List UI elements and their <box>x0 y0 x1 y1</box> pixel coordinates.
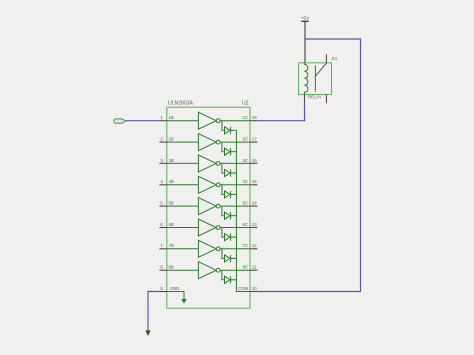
channel 7 output line <box>220 248 250 250</box>
channel 2 output line <box>220 141 250 143</box>
channel 7 input pin 7 <box>159 243 174 249</box>
relay switch blade <box>315 63 326 76</box>
svg-text:10: 10 <box>252 286 257 291</box>
channel 6 diode D6 <box>222 228 237 241</box>
channel 3 input line <box>167 162 199 164</box>
diode common bus to COM <box>236 130 250 291</box>
relay pin bottom-left (coil) <box>304 95 306 104</box>
+5V supply symbol <box>301 16 310 22</box>
IC U2 ULN2803A body <box>167 107 250 308</box>
wire GND net <box>148 292 159 332</box>
channel 5 input line <box>167 205 199 207</box>
channel 2 input pin 2 <box>159 137 174 143</box>
channel 6 inverter bubble <box>216 226 220 230</box>
GND internal arrow <box>167 292 187 304</box>
svg-text:3B: 3B <box>169 158 174 163</box>
channel 1 inverter bubble <box>216 119 220 123</box>
channel 6 inverter triangle <box>198 219 216 236</box>
svg-text:1C: 1C <box>243 115 248 120</box>
channel 3 inverter triangle <box>198 155 216 172</box>
channel 2 inverter bubble <box>216 140 220 144</box>
svg-text:13: 13 <box>252 222 257 227</box>
channel 5 output line <box>220 205 250 207</box>
channel 4 diode D4 <box>222 185 237 198</box>
channel 8 output line <box>220 269 250 271</box>
svg-text:17: 17 <box>252 137 257 142</box>
svg-text:4B: 4B <box>169 179 174 184</box>
channel 5 input pin 5 <box>159 201 174 207</box>
wire output 1C to relay coil <box>257 103 304 121</box>
wire COM net to +5V rail <box>257 39 360 292</box>
channel 4 output pin 15 <box>243 179 258 185</box>
svg-text:6C: 6C <box>243 222 248 227</box>
wire +5V to relay coil top <box>304 22 306 63</box>
svg-text:18: 18 <box>252 115 257 120</box>
svg-text:6B: 6B <box>169 222 174 227</box>
channel 2 input line <box>167 141 199 143</box>
channel 4 input line <box>167 184 199 186</box>
relay pin top-right <box>325 54 327 63</box>
channel 3 diode D3 <box>222 163 237 176</box>
channel 7 input line <box>167 248 199 250</box>
svg-text:15: 15 <box>252 179 257 184</box>
ground symbol arrow <box>145 330 150 336</box>
relay coil <box>304 63 308 95</box>
channel 4 inverter bubble <box>216 183 220 187</box>
relay pin bottom-right <box>325 95 327 104</box>
channel 2 diode D2 <box>222 142 237 155</box>
svg-text:+5V: +5V <box>301 16 310 21</box>
channel 1 inverter triangle <box>198 112 216 129</box>
svg-text:16: 16 <box>252 158 257 163</box>
svg-text:2C: 2C <box>243 137 248 142</box>
channel 7 diode D7 <box>222 249 237 262</box>
channel 5 inverter triangle <box>198 198 216 215</box>
svg-text:11: 11 <box>252 265 257 270</box>
svg-text:12: 12 <box>252 243 257 248</box>
wire input net to pin 1 <box>126 120 160 122</box>
channel 1 diode D1 <box>222 121 237 134</box>
svg-text:8B: 8B <box>169 265 174 270</box>
svg-text:RELAY: RELAY <box>308 95 322 100</box>
channel 4 inverter triangle <box>198 176 216 193</box>
channel 7 inverter bubble <box>216 247 220 251</box>
channel 1 output line <box>220 120 250 122</box>
svg-text:8C: 8C <box>243 265 248 270</box>
relay switch pole <box>314 65 316 92</box>
channel 2 inverter triangle <box>198 134 216 151</box>
channel 5 output pin 14 <box>243 201 258 207</box>
svg-text:U2: U2 <box>242 101 249 107</box>
channel 4 input pin 4 <box>159 179 174 185</box>
channel 8 diode D8 <box>222 270 237 283</box>
svg-text:ULN2803A: ULN2803A <box>168 101 194 107</box>
channel 8 inverter triangle <box>198 262 216 279</box>
svg-text:7B: 7B <box>169 243 174 248</box>
channel 8 inverter bubble <box>216 268 220 272</box>
COM pin 10 <box>238 286 257 292</box>
channel 7 output pin 12 <box>243 243 258 249</box>
channel 3 output line <box>220 162 250 164</box>
channel 8 output pin 11 <box>243 265 258 271</box>
svg-text:1B: 1B <box>169 115 174 120</box>
channel 4 output line <box>220 184 250 186</box>
channel 1 input line <box>167 120 199 122</box>
svg-text:5C: 5C <box>243 201 248 206</box>
channel 7 inverter triangle <box>198 240 216 257</box>
channel 1 output pin 18 <box>243 115 258 121</box>
channel 3 output pin 16 <box>243 158 258 164</box>
channel 6 output line <box>220 227 250 229</box>
channel 5 inverter bubble <box>216 204 220 208</box>
channel 2 output pin 17 <box>243 137 258 143</box>
svg-text:4C: 4C <box>243 179 248 184</box>
svg-text:2B: 2B <box>169 137 174 142</box>
svg-text:7C: 7C <box>243 243 248 248</box>
channel 3 inverter bubble <box>216 162 220 166</box>
channel 3 input pin 3 <box>159 158 174 164</box>
svg-text:3C: 3C <box>243 158 248 163</box>
channel 5 diode D5 <box>222 206 237 219</box>
input port connector <box>114 119 126 123</box>
channel 1 input pin 1 <box>159 115 174 121</box>
channel 6 input line <box>167 227 199 229</box>
channel 6 input pin 6 <box>159 222 174 228</box>
channel 8 input pin 8 <box>159 265 174 271</box>
svg-text:14: 14 <box>252 201 257 206</box>
GND pin 9 <box>159 286 179 292</box>
svg-text:5B: 5B <box>169 201 174 206</box>
svg-text:COM: COM <box>238 286 248 291</box>
svg-text:K1: K1 <box>332 56 338 61</box>
channel 8 input line <box>167 269 199 271</box>
svg-text:GND: GND <box>170 286 179 291</box>
relay K1 body <box>299 63 332 95</box>
channel 6 output pin 13 <box>243 222 258 228</box>
